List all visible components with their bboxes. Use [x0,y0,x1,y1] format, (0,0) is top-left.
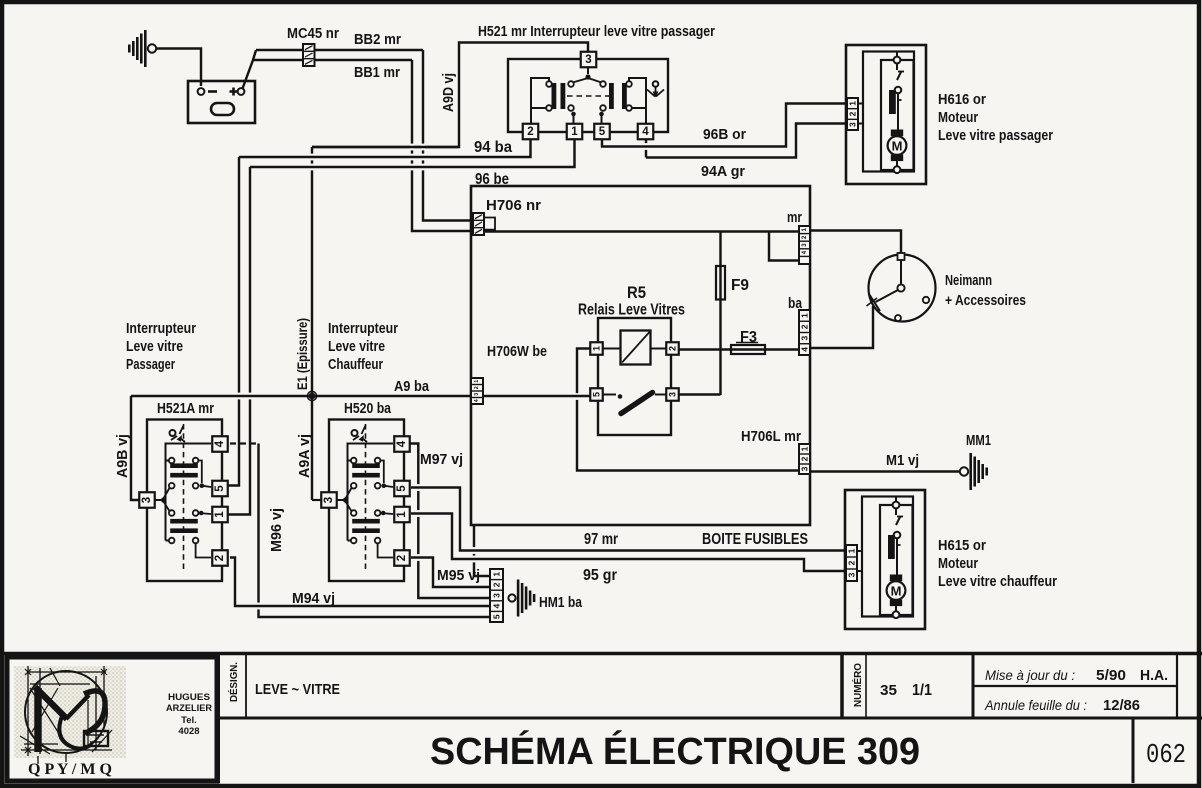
thermal strip [888,535,895,559]
ground MM1 [960,467,968,475]
H521 lower contact dots [571,112,576,117]
window glass icon [170,430,176,436]
H521 pin 1 [567,124,583,140]
svg-text:F3: F3 [740,329,757,346]
svg-text:95 gr: 95 gr [583,567,617,584]
switch H521 box [508,59,668,132]
svg-text:2: 2 [492,582,502,587]
pin 3 [139,492,155,508]
svg-text:Relais Leve Vitres: Relais Leve Vitres [578,302,685,319]
svg-text:MM1: MM1 [966,432,991,449]
svg-text:1: 1 [492,572,502,577]
svg-text:HM1 ba: HM1 ba [539,595,583,611]
switch H520 [329,420,404,582]
svg-text:Interrupteur: Interrupteur [126,321,196,337]
svg-text:A9B vj: A9B vj [115,434,131,478]
svg-text:4: 4 [642,126,649,138]
svg-text:MC45 nr: MC45 nr [287,26,339,42]
svg-text:96B or: 96B or [703,127,746,143]
svg-text:H706W be: H706W be [487,344,547,360]
svg-text:H520 ba: H520 ba [344,401,392,417]
svg-text:H616 or: H616 or [938,92,986,108]
wire H706W to pin5 [483,395,591,397]
H521 pin 4 [638,124,654,140]
pin 1 [212,507,228,523]
pin 3 [321,492,337,508]
H521 contact circles [546,81,552,87]
design box divider [216,653,220,783]
svg-text:M: M [891,584,902,599]
wire 97 mr [411,488,847,551]
wire 96B or [602,104,847,147]
wire A9D vj vertical [312,43,588,148]
wire ground to battery [156,49,201,87]
thermal strip [889,90,896,114]
svg-text:BOITE FUSIBLES: BOITE FUSIBLES [702,531,808,548]
wire Neimann to ba [810,306,873,348]
svg-text:2: 2 [800,456,810,461]
junction E1 [309,393,316,400]
pin3 common [140,499,162,501]
motor inner frame [863,52,914,172]
connector MC45 [303,44,315,66]
svg-text:12/86: 12/86 [1103,698,1140,714]
pin 4 [394,436,410,452]
wire 96 be [250,139,575,167]
svg-text:Chauffeur: Chauffeur [328,357,383,373]
svg-text:2: 2 [396,555,408,561]
connector H706L mr [799,444,810,474]
svg-text:3: 3 [474,393,480,396]
svg-text:M95 vj: M95 vj [437,568,480,584]
svg-text:4: 4 [396,440,408,447]
internal rail [166,444,212,541]
svg-text:4: 4 [800,347,810,352]
svg-text:3: 3 [585,54,591,66]
svg-text:1: 1 [800,313,810,318]
svg-text:2: 2 [800,324,810,329]
battery [188,81,255,123]
wire BB2 mr [256,49,423,51]
svg-text:5: 5 [592,392,602,397]
svg-text:1: 1 [214,511,226,518]
wire battery positive [243,50,257,89]
svg-text:2: 2 [668,346,678,351]
contact circles [351,458,357,464]
wire fusebox to HM1 [474,525,490,576]
svg-text:NUMÉRO: NUMÉRO [851,663,864,707]
svg-text:A9 ba: A9 ba [394,379,430,395]
wire M96 vj vertical [259,444,491,618]
svg-text:A9A vj: A9A vj [297,434,313,478]
gap for pin1 vertical [577,349,799,471]
svg-text:Leve vitre: Leve vitre [126,339,183,355]
relay pin 5 [590,388,603,401]
svg-text:HUGUES: HUGUES [168,692,210,703]
contact bars [170,463,198,468]
svg-text:1: 1 [848,101,858,106]
wire mr to Neimann [810,231,901,254]
wire A9A vj [311,396,313,500]
motor M [890,575,902,582]
contact circles [169,458,175,464]
wire A9B vj [131,396,139,500]
H521 dashed line [567,95,612,97]
wire M94 vj [230,558,490,607]
pin4 H521 stub [645,139,647,158]
svg-text:M96 vj: M96 vj [269,508,285,552]
svg-text:ba: ba [788,296,803,312]
svg-text:2: 2 [474,386,480,389]
pin 2 [212,550,228,566]
svg-text:M: M [892,139,903,154]
wire 94 ba [239,139,531,157]
relay contact [602,394,616,396]
wire M97 vj vertical [409,444,490,599]
svg-text:mr: mr [787,210,802,226]
svg-text:4028: 4028 [178,726,199,737]
svg-text:Passager: Passager [126,357,175,373]
connector H615 [846,545,857,581]
svg-text:2: 2 [214,555,226,561]
svg-text:5/90: 5/90 [1096,668,1126,684]
motor outer box [845,490,925,629]
wire BB1 mr vertical [412,60,473,231]
wire 94A gr [646,124,847,158]
svg-text:LEVE ~ VITRE: LEVE ~ VITRE [255,682,340,698]
svg-text:M1 vj: M1 vj [886,453,919,469]
wire A9 ba [131,395,471,397]
svg-text:94 ba: 94 ba [474,139,512,156]
wire A9D horizontal repaint [312,146,459,148]
H521 contact bars [552,83,557,109]
pin 2 [394,550,410,566]
svg-text:1: 1 [800,446,810,451]
svg-text:Annule feuille du :: Annule feuille du : [984,698,1087,713]
relay pin 1 [590,342,603,355]
ground G0 [148,44,156,52]
svg-text:BB2 mr: BB2 mr [354,32,401,48]
wire 96 be vertical [228,167,250,515]
svg-text:H706L mr: H706L mr [741,429,801,445]
svg-text:Leve vitre: Leve vitre [328,339,385,355]
svg-text:97 mr: 97 mr [584,531,618,548]
svg-text:062: 062 [1146,741,1186,771]
fusebox internal top wire [484,230,799,232]
internal rail [348,444,394,541]
svg-text:Leve vitre passager: Leve vitre passager [938,128,1053,144]
svg-text:Neimann: Neimann [945,273,992,289]
svg-text:BB1 mr: BB1 mr [354,65,400,81]
H521 pin 3 [581,52,597,68]
numero box [840,653,844,718]
motor supply circles [896,52,898,57]
fuse F9 feed [719,232,721,396]
relay R5 box [598,318,671,435]
H521 window icon [653,81,659,87]
svg-text:3: 3 [847,572,857,577]
thermal cutout switch [895,509,897,516]
relay pin 3 [666,388,679,401]
mise a jour box [972,653,975,718]
svg-text:M94 vj: M94 vj [292,591,335,607]
svg-text:5: 5 [492,614,502,619]
H521 internal rail left [531,78,549,124]
svg-text:+ Accessoires: + Accessoires [945,293,1026,309]
Neimann ignition switch [869,255,936,322]
connector mr [799,226,810,264]
wire M96 vj dashed stub [230,442,259,444]
svg-text:1: 1 [396,511,408,518]
H521 pin 2 [523,124,539,140]
relay pin 2 [666,342,679,355]
connector H616 [847,98,858,130]
svg-text:1: 1 [571,126,578,138]
relay coil [621,331,651,365]
svg-text:1: 1 [474,380,480,383]
switch H521A [147,420,222,582]
svg-text:94A gr: 94A gr [701,164,745,180]
ground HM1 [508,594,515,601]
svg-text:M97 vj: M97 vj [420,452,463,468]
motor inner frame [862,497,913,617]
svg-text:H706 nr: H706 nr [486,198,541,214]
svg-text:H521A mr: H521A mr [157,401,214,417]
pin 5 [212,481,228,497]
horizontal divider [218,717,1202,720]
wire BB1 mr [253,59,412,61]
contact bars [352,463,380,468]
pin3 common [322,499,344,501]
svg-text:R5: R5 [627,283,646,302]
062 box [1132,718,1135,783]
wire BB2 mr vertical [423,50,473,221]
svg-text:2: 2 [848,111,858,116]
fuse box BOITE FUSIBLES [471,186,810,525]
svg-text:Leve vitre chauffeur: Leve vitre chauffeur [938,574,1057,590]
svg-text:3: 3 [141,497,153,503]
contact to pin links [198,461,201,484]
crossover gaps [410,144,414,151]
svg-text:Moteur: Moteur [938,556,978,572]
thermal cutout switch [896,64,898,71]
svg-text:35: 35 [880,682,897,699]
svg-text:SCHÉMA ÉLECTRIQUE 309: SCHÉMA ÉLECTRIQUE 309 [430,729,920,773]
svg-text:ARZELIER: ARZELIER [166,703,212,714]
fuse F3 [731,345,765,354]
connector H706 nr [473,213,484,235]
svg-text:4: 4 [214,440,226,447]
pin 5 [394,481,410,497]
svg-text:Interrupteur: Interrupteur [328,321,398,337]
svg-text:H521 mr Interrupteur leve vitr: H521 mr Interrupteur leve vitre passager [478,24,715,40]
title block top line [0,652,1202,656]
motor supply circles [895,497,897,502]
svg-text:2: 2 [847,560,857,565]
svg-text:3: 3 [800,335,810,340]
svg-text:Mise à jour du :: Mise à jour du : [985,668,1075,683]
svg-text:3: 3 [800,466,810,471]
wire 95 gr [411,514,846,572]
svg-text:Tel.: Tel. [181,715,197,726]
H521 internal rail right [629,78,646,124]
svg-text:5: 5 [214,485,226,492]
svg-text:E1 (Epissure): E1 (Epissure) [295,318,310,390]
svg-text:2: 2 [527,126,533,138]
connector HM1 [490,569,503,622]
svg-text:1: 1 [847,548,857,553]
wire M95 vj [411,558,490,588]
connector H706W be [471,378,483,404]
motor outer box [846,45,926,184]
contact to pin links [380,461,383,484]
svg-text:3: 3 [668,392,678,397]
H521 pin3 common [587,67,589,74]
svg-text:4: 4 [492,603,502,608]
wire 94 ba vertical [228,157,239,486]
svg-text:3: 3 [848,122,858,127]
svg-text:5: 5 [599,126,606,138]
svg-text:Q P Y / M Q: Q P Y / M Q [28,761,112,778]
window glass icon [352,430,358,436]
svg-text:Moteur: Moteur [938,110,978,126]
svg-text:A9D vj: A9D vj [441,73,457,112]
connector ba [799,310,810,355]
wire M1 vj [810,470,960,472]
node E1 epissure vertical [311,147,313,396]
svg-text:DÉSIGN.: DÉSIGN. [227,662,240,702]
svg-text:4: 4 [474,399,480,402]
pin 1 [394,507,410,523]
wire pin2 to F3 to ba [679,348,800,350]
fuse F9 [716,266,725,300]
svg-text:3: 3 [323,497,335,503]
svg-text:1/1: 1/1 [912,682,932,699]
motor M [891,130,903,137]
svg-text:H615 or: H615 or [938,538,986,554]
svg-text:5: 5 [396,485,408,492]
svg-text:F9: F9 [731,277,749,294]
svg-text:3: 3 [492,593,502,598]
H521 pin 5 [594,124,610,140]
Neimann lever [876,290,899,302]
svg-text:H.A.: H.A. [1140,668,1168,684]
wire pin3 to F9 [679,393,721,395]
pin 4 [212,436,228,452]
svg-text:1: 1 [592,346,602,351]
logo box [7,657,217,781]
